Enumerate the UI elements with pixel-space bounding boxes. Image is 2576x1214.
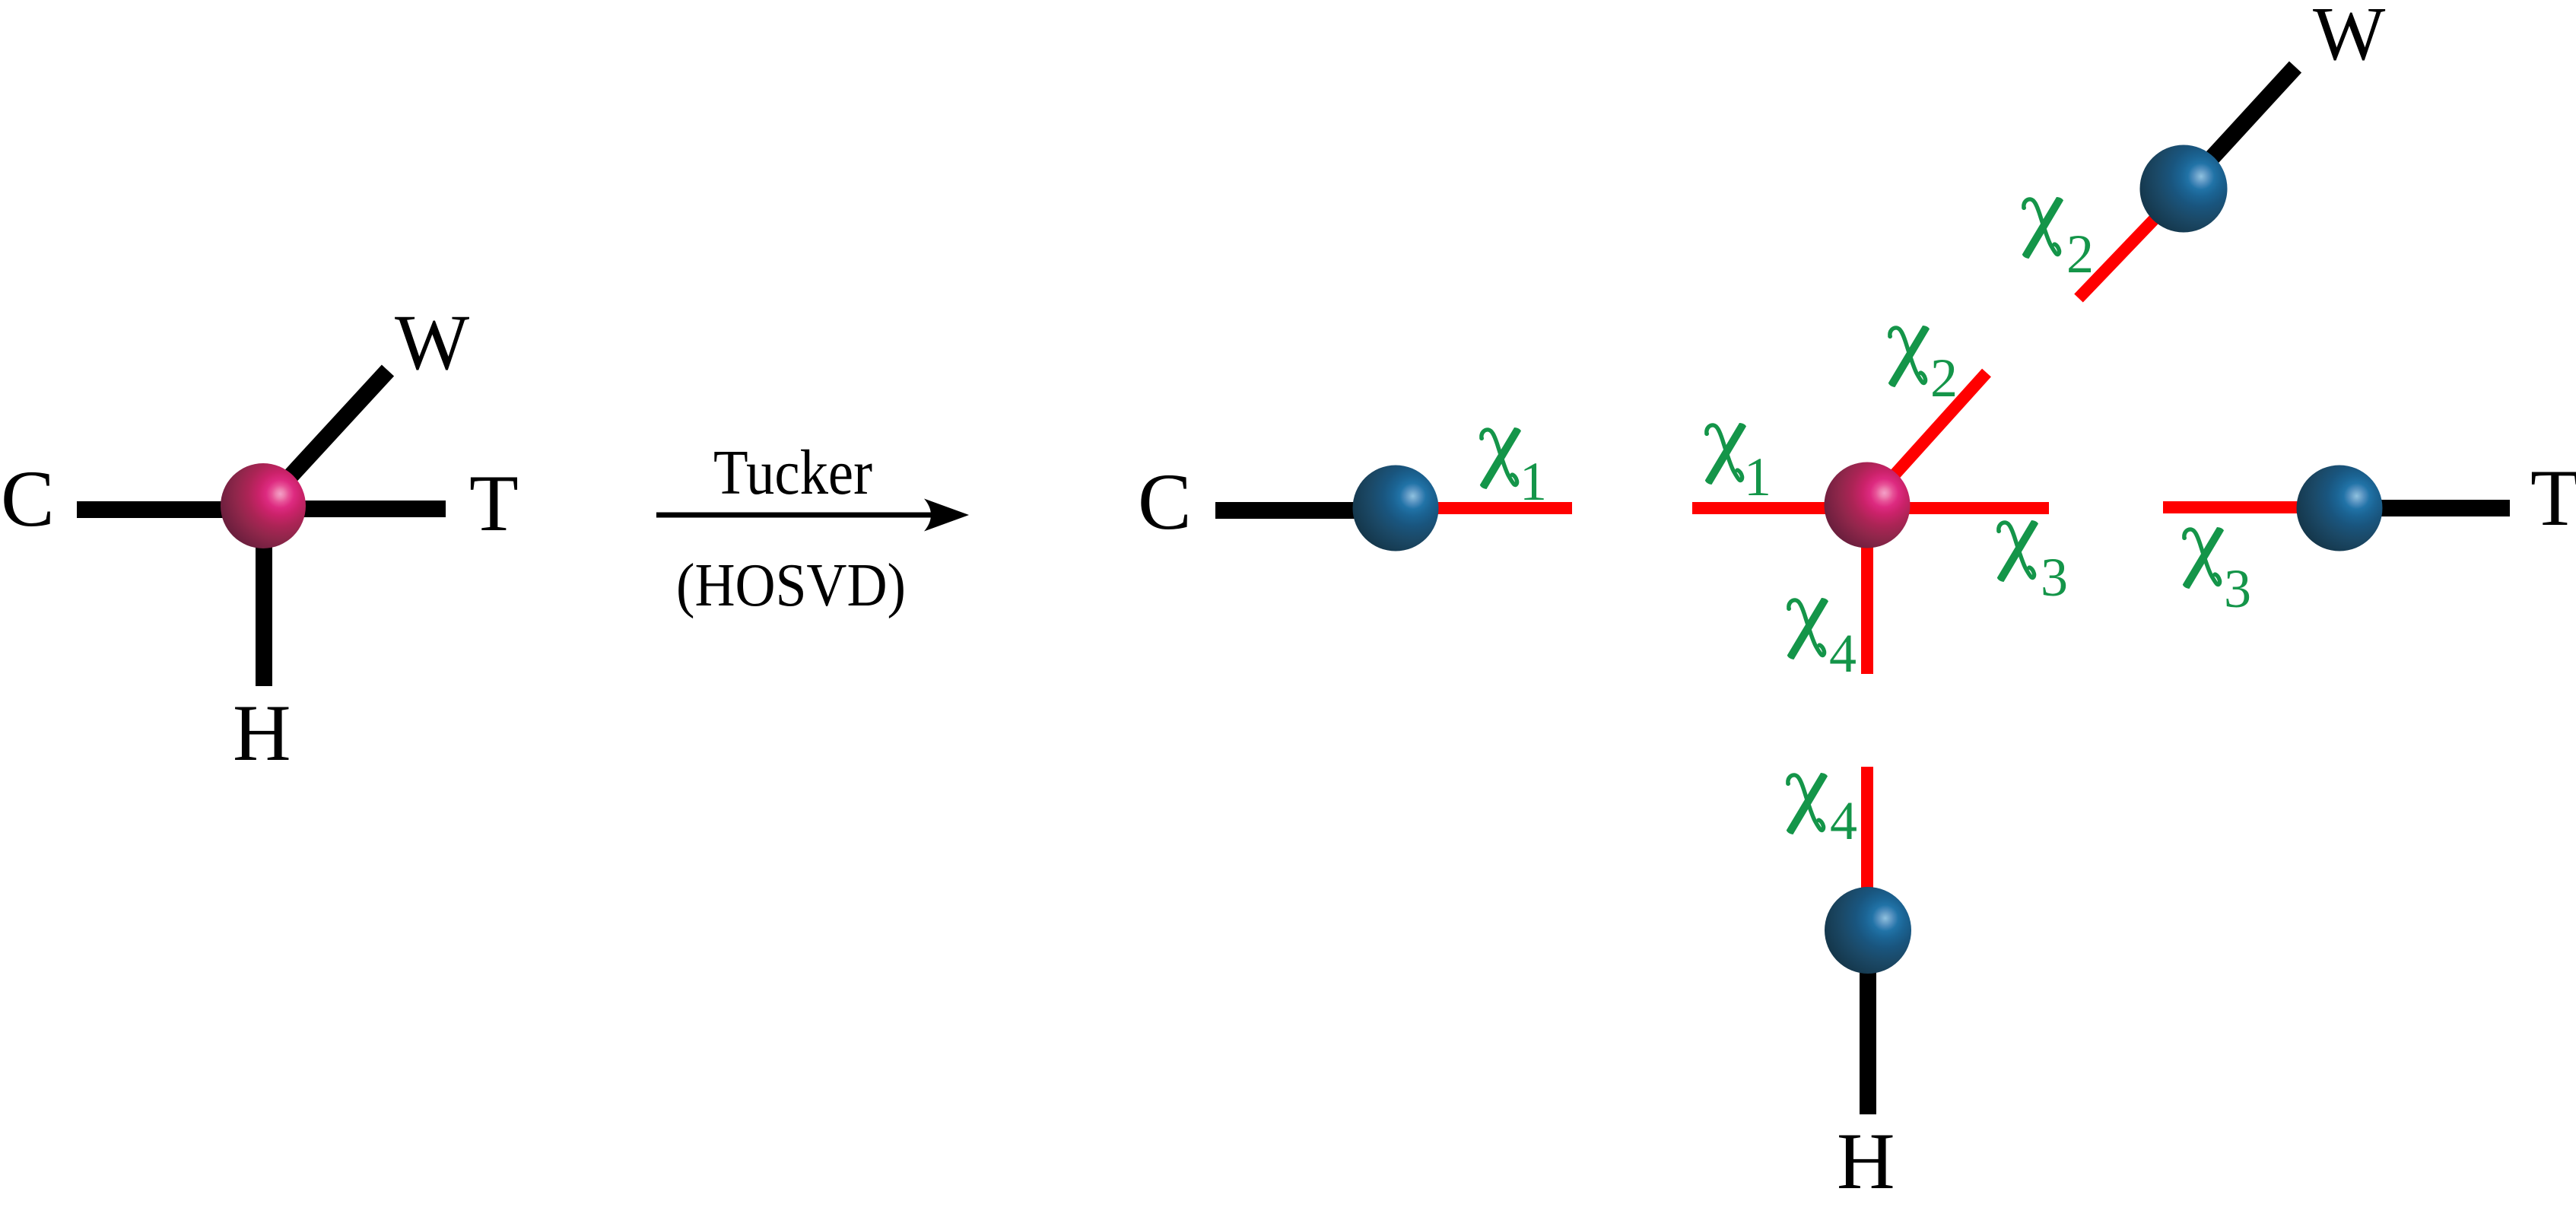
- node: U_W isometry sphere (blue): [2140, 145, 2228, 233]
- wire: chi3 red segment A: [1867, 502, 2049, 514]
- wire: chi1 red segment A: [1396, 502, 1572, 514]
- svg-text:W: W: [2313, 0, 2386, 76]
- svg-text:T: T: [2530, 453, 2576, 542]
- wire: chi3 red segment B: [2163, 501, 2339, 513]
- svg-text:H: H: [233, 688, 291, 777]
- node: core tensor sphere (center, pink): [1825, 462, 1911, 548]
- wire: chi1 red segment B: [1692, 502, 1868, 514]
- svg-text:2: 2: [2066, 224, 2094, 284]
- wire: right T leg (black): [2339, 500, 2510, 516]
- label chi4 (second): [1786, 773, 1828, 834]
- svg-text:3: 3: [2224, 558, 2251, 619]
- node: U_H isometry sphere (blue): [1825, 887, 1911, 974]
- svg-text:Tucker: Tucker: [713, 437, 872, 508]
- label chi3 (first): [1996, 520, 2038, 582]
- label chi2 (outer): [2022, 197, 2063, 259]
- wire: chi4 red vertical segment A: [1861, 505, 1873, 674]
- wire: left leg C (black): [77, 501, 263, 518]
- svg-text:(HOSVD): (HOSVD): [676, 552, 906, 619]
- node: U_T isometry sphere (blue): [2297, 466, 2383, 551]
- wire: chi2 red diagonal segment A: [1867, 373, 1987, 505]
- wire: chi4 red vertical segment B: [1861, 767, 1873, 930]
- svg-text:C: C: [1138, 457, 1192, 546]
- svg-text:W: W: [395, 299, 469, 386]
- node: core tensor sphere (left, pink): [221, 463, 306, 548]
- wire: left leg T (black): [263, 501, 446, 517]
- wire: chi2 red diagonal segment B: [2079, 189, 2184, 298]
- svg-text:H: H: [1837, 1117, 1895, 1206]
- svg-text:T: T: [469, 459, 519, 548]
- wire: left leg H vertical (black): [256, 506, 272, 686]
- svg-text:1: 1: [1520, 451, 1547, 512]
- label chi4 (first): [1787, 598, 1828, 659]
- arrowhead: [924, 499, 969, 532]
- svg-text:2: 2: [1930, 348, 1958, 408]
- label chi3 (second): [2182, 527, 2224, 589]
- svg-text:4: 4: [1830, 790, 1857, 851]
- arrow shaft: [656, 513, 943, 518]
- label chi2 (inner): [1888, 326, 1930, 387]
- node: U_C isometry sphere (blue): [1353, 466, 1439, 551]
- svg-text:C: C: [1, 454, 55, 543]
- wire: right C leg (black): [1215, 502, 1396, 519]
- svg-text:1: 1: [1744, 447, 1771, 507]
- svg-text:3: 3: [2041, 547, 2068, 608]
- wire: right W leg diagonal (black): [2184, 67, 2295, 189]
- svg-text:4: 4: [1829, 623, 1857, 684]
- wire: right H leg (black): [1860, 930, 1876, 1114]
- wire: left leg W diagonal (black): [263, 370, 388, 506]
- label chi1 (second): [1704, 423, 1746, 485]
- label chi1 (first): [1479, 427, 1521, 489]
